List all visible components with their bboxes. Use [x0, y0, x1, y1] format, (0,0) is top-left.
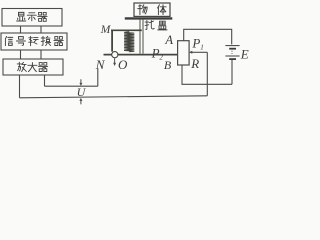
svg-text:O: O [118, 57, 128, 72]
svg-text:E: E [240, 46, 249, 61]
svg-text:A: A [164, 33, 173, 47]
svg-text:2: 2 [159, 54, 163, 62]
svg-text:N: N [95, 57, 106, 72]
svg-text:M: M [100, 24, 112, 36]
svg-text:B: B [164, 58, 172, 72]
svg-text:P: P [191, 36, 200, 51]
svg-text:1: 1 [200, 44, 204, 52]
svg-text:P: P [151, 45, 160, 60]
svg-text:U: U [77, 85, 87, 99]
svg-text:R: R [190, 56, 199, 71]
